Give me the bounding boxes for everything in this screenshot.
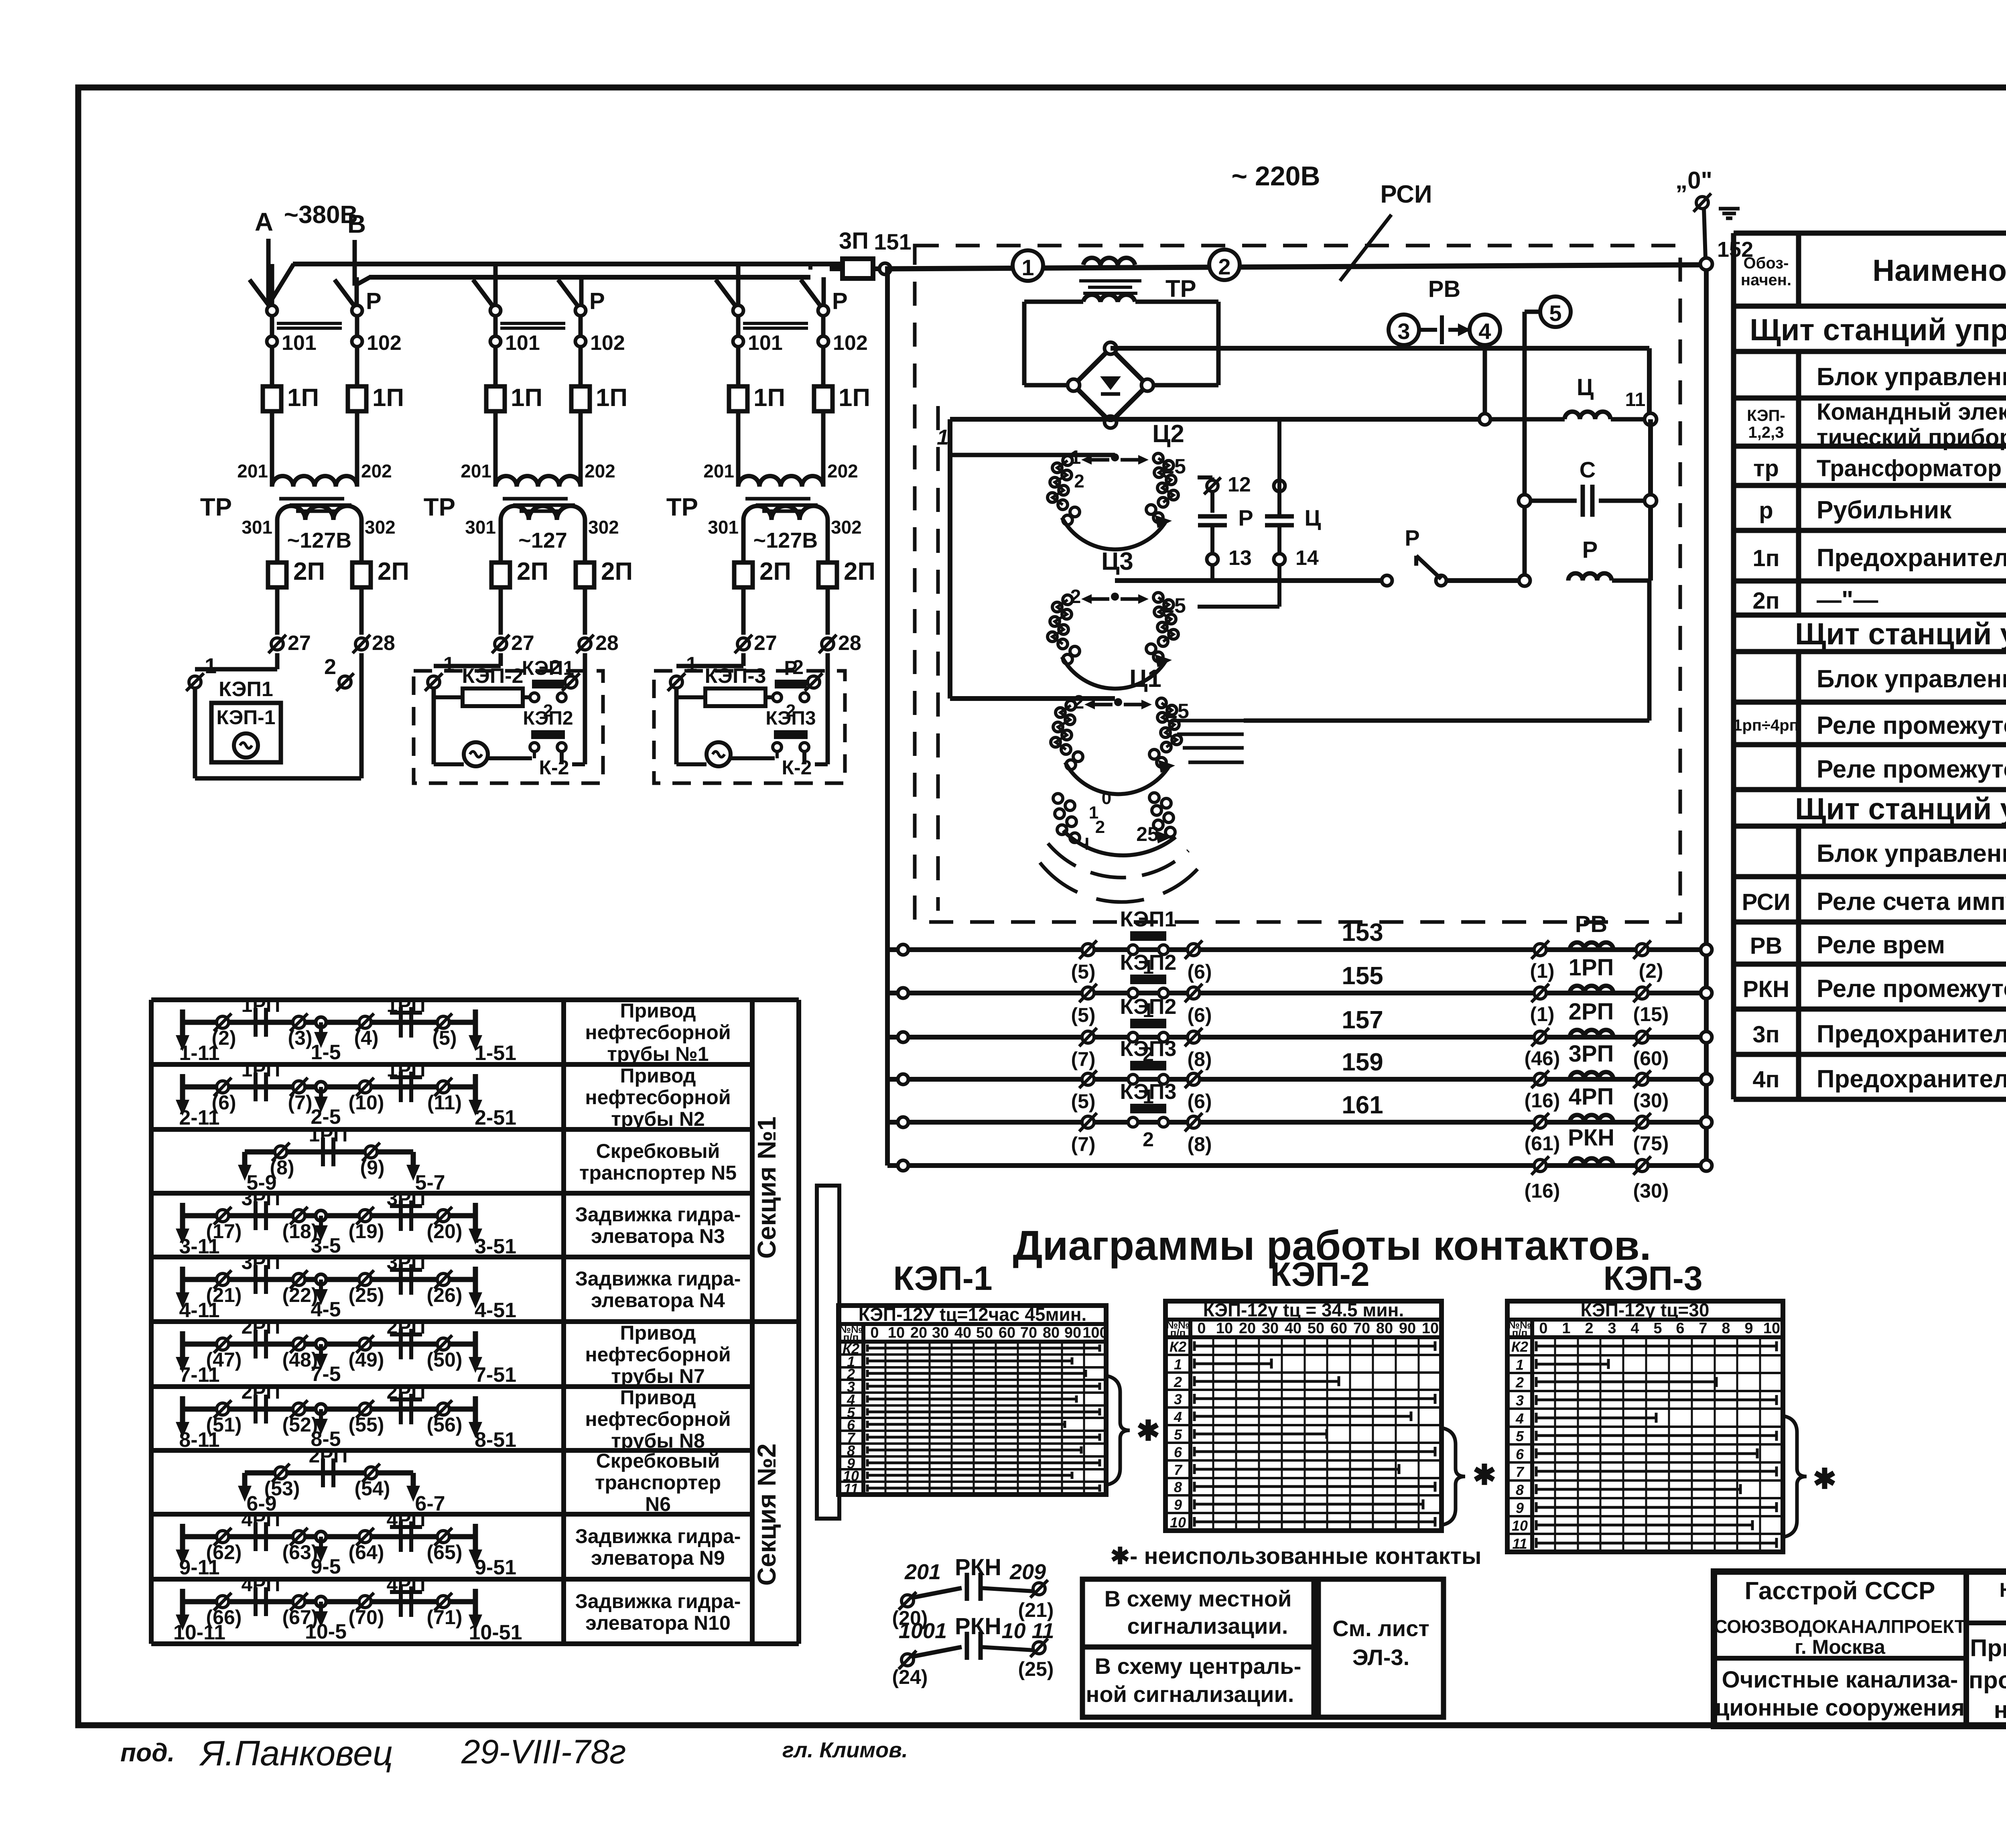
svg-text:80: 80 [1043,1324,1060,1341]
svg-text:РСИ: РСИ [1380,181,1432,208]
svg-text:элеватора N3: элеватора N3 [591,1225,725,1247]
svg-text:ния механизмами.: ния механизмами. [1994,1696,2006,1723]
svg-text:70: 70 [1020,1324,1037,1341]
svg-text:г. Москва: г. Москва [1795,1636,1886,1658]
svg-text:Реле промежуточное: Реле промежуточное [1817,755,2006,783]
svg-text:КЭП-12у tц=30: КЭП-12у tц=30 [1581,1300,1710,1320]
svg-text:152: 152 [1717,238,1753,262]
svg-text:301: 301 [708,517,739,538]
svg-text:(8): (8) [1187,1133,1212,1156]
svg-text:~127В: ~127В [753,528,818,552]
svg-text:30: 30 [1262,1320,1279,1337]
svg-text:201: 201 [461,461,491,481]
svg-text:(2): (2) [211,1027,236,1049]
svg-text:(7): (7) [288,1091,312,1114]
svg-text:(5): (5) [1071,1004,1095,1026]
svg-text:1РП: 1РП [386,994,425,1016]
svg-text:6: 6 [1174,1444,1182,1460]
svg-text:9: 9 [1744,1320,1753,1337]
svg-text:Р: Р [784,657,797,679]
svg-text:7: 7 [1516,1464,1525,1480]
svg-text:3п: 3п [1752,1021,1779,1048]
svg-text:ЭЛ-3.: ЭЛ-3. [1352,1645,1409,1670]
svg-text:нефтесборной: нефтесборной [585,1021,731,1044]
svg-text:5: 5 [1516,1428,1524,1444]
svg-text:Щит станций управления 1ЩСУ шк: Щит станций управления 1ЩСУ шкафы NN 4,5… [1750,313,2006,347]
svg-text:3П: 3П [839,228,869,254]
svg-text:2П: 2П [293,558,325,585]
svg-text:КЭП1: КЭП1 [522,657,574,679]
svg-text:К-2: К-2 [782,756,812,779]
svg-text:8: 8 [1722,1320,1730,1337]
svg-text:100: 100 [1082,1324,1108,1341]
svg-text:2П: 2П [601,558,633,585]
svg-text:КЭП2: КЭП2 [1120,995,1177,1019]
svg-text:2РП: 2РП [309,1444,347,1467]
svg-text:✱: ✱ [1137,1415,1160,1446]
svg-text:3: 3 [1174,1391,1182,1407]
svg-text:(71): (71) [427,1606,463,1629]
svg-text:3РП: 3РП [241,1251,280,1273]
svg-text:6: 6 [1516,1446,1524,1462]
svg-text:153: 153 [1342,919,1383,946]
svg-text:Рубильник: Рубильник [1817,496,1952,524]
svg-text:Блок управления: Блок управления [1817,363,2006,391]
svg-text:п/п: п/п [1170,1327,1186,1339]
svg-text:К2: К2 [1169,1338,1186,1355]
svg-text:28: 28 [372,632,395,655]
svg-text:40: 40 [1285,1320,1301,1337]
svg-text:80: 80 [1376,1320,1393,1337]
svg-text:Ц3: Ц3 [1101,548,1133,575]
svg-text:(8): (8) [1187,1048,1212,1070]
svg-text:В схему местной: В схему местной [1105,1586,1292,1611]
svg-text:КЭП2: КЭП2 [1120,950,1177,975]
svg-text:3-5: 3-5 [311,1234,341,1257]
svg-text:Принципиальная схема: Принципиальная схема [1970,1635,2006,1661]
svg-text:КЭП-1: КЭП-1 [893,1259,992,1297]
svg-text:ной сигнализации.: ной сигнализации. [1086,1681,1294,1707]
svg-text:2П: 2П [844,558,875,585]
svg-text:РКН: РКН [1743,976,1789,1002]
svg-text:(24): (24) [892,1666,928,1688]
svg-text:4: 4 [1630,1320,1639,1337]
svg-text:Блок управления: Блок управления [1817,665,2006,693]
svg-text:20: 20 [1239,1320,1256,1337]
svg-text:9: 9 [1516,1500,1524,1516]
svg-text:К2: К2 [1511,1338,1528,1355]
svg-text:202: 202 [827,461,858,481]
svg-text:90: 90 [1064,1324,1081,1341]
svg-text:7-5: 7-5 [311,1363,341,1386]
svg-text:50: 50 [1308,1320,1324,1337]
svg-text:(11): (11) [427,1091,462,1114]
svg-text:Задвижка гидра-: Задвижка гидра- [575,1267,741,1290]
svg-text:2РП: 2РП [386,1381,425,1403]
svg-text:161: 161 [1342,1091,1383,1119]
svg-text:155: 155 [1342,962,1383,990]
svg-text:(25): (25) [1018,1658,1054,1680]
svg-text:Наименование: Наименование [1872,254,2006,288]
svg-text:102: 102 [590,331,625,355]
svg-text:2: 2 [1095,817,1105,837]
svg-text:(51): (51) [206,1413,242,1436]
svg-text:(30): (30) [1633,1180,1669,1202]
svg-text:3РП: 3РП [386,1251,425,1273]
svg-text:К-2: К-2 [539,756,569,779]
svg-text:ТР: ТР [666,493,698,521]
svg-text:КЭП-3: КЭП-3 [705,664,766,688]
svg-text:40: 40 [954,1324,971,1341]
svg-text:транспортер: транспортер [595,1471,721,1494]
svg-text:(60): (60) [1633,1047,1669,1070]
svg-text:КЭП-12У tц=12час 45мин.: КЭП-12У tц=12час 45мин. [859,1304,1087,1325]
svg-text:27: 27 [754,632,777,655]
svg-text:2: 2 [1143,1128,1154,1151]
svg-text:(9): (9) [360,1156,384,1179]
svg-text:7: 7 [1699,1320,1707,1337]
svg-text:11: 11 [1625,389,1646,410]
svg-text:0: 0 [1539,1320,1547,1337]
svg-text:Трансформатор понижающий: Трансформатор понижающий [1817,455,2006,481]
svg-text:(5): (5) [1071,961,1095,983]
svg-text:трубы N2: трубы N2 [611,1108,705,1130]
svg-text:9: 9 [1174,1497,1182,1513]
svg-text:1: 1 [1516,1357,1524,1373]
svg-text:(16): (16) [1525,1180,1560,1202]
svg-text:нефтесборной: нефтесборной [585,1408,731,1430]
svg-text:202: 202 [585,461,615,481]
svg-text:~ 220В: ~ 220В [1231,161,1320,191]
svg-text:КЭП-12у tц = 34.5 мин.: КЭП-12у tц = 34.5 мин. [1203,1300,1404,1320]
svg-text:транспортер N5: транспортер N5 [579,1162,737,1184]
svg-text:301: 301 [242,517,272,538]
svg-text:(26): (26) [427,1284,463,1306]
svg-text:4: 4 [1174,1409,1182,1425]
svg-text:трубы N7: трубы N7 [611,1365,705,1387]
svg-text:10: 10 [1422,1320,1439,1337]
svg-text:1РП: 1РП [309,1123,347,1146]
svg-text:ТР: ТР [1165,275,1196,302]
svg-text:под.: под. [120,1738,175,1767]
svg-text:11: 11 [1512,1535,1527,1552]
svg-text:(20): (20) [427,1220,463,1243]
svg-text:Привод: Привод [620,1386,696,1409]
svg-text:28: 28 [838,632,861,655]
svg-text:(66): (66) [206,1606,242,1629]
svg-text:Привод: Привод [620,1064,696,1087]
svg-text:301: 301 [465,517,496,538]
svg-text:Предохранитель.: Предохранитель. [1817,1065,2006,1093]
svg-text:1: 1 [1021,255,1034,280]
svg-text:1001: 1001 [899,1619,947,1643]
svg-text:(5): (5) [1071,1090,1095,1113]
svg-text:1п: 1п [1752,545,1779,571]
svg-text:4: 4 [1478,319,1491,344]
svg-text:КЭП-1: КЭП-1 [216,706,275,729]
svg-text:2П: 2П [378,558,409,585]
svg-text:6: 6 [1676,1320,1684,1337]
svg-text:РКН: РКН [955,1613,1001,1639]
svg-text:(21): (21) [1018,1599,1054,1621]
svg-text:Р: Р [1238,505,1253,530]
svg-text:1: 1 [1562,1320,1570,1337]
svg-text:302: 302 [588,517,619,538]
svg-text:14: 14 [1295,546,1319,570]
svg-text:РКН: РКН [955,1554,1001,1580]
svg-text:нефтесборной: нефтесборной [585,1343,731,1366]
svg-text:Р: Р [832,288,848,314]
svg-text:201: 201 [703,461,734,481]
svg-text:Реле врем: Реле врем [1817,931,1945,959]
svg-text:Нефтеловушка из сборных железо: Нефтеловушка из сборных железобетонных [2000,1579,2006,1601]
svg-text:1П: 1П [596,384,627,412]
svg-text:60: 60 [999,1324,1015,1341]
svg-text:(6): (6) [1187,961,1212,983]
svg-text:(53): (53) [264,1477,300,1500]
svg-text:2РП: 2РП [241,1316,280,1338]
svg-text:1-5: 1-5 [311,1041,341,1064]
svg-text:8: 8 [1174,1479,1182,1495]
svg-text:(21): (21) [206,1284,242,1306]
svg-text:ционные сооружения: ционные сооружения [1715,1695,1965,1721]
svg-text:КЭП2: КЭП2 [523,708,573,729]
svg-text:13: 13 [1228,546,1252,570]
svg-text:Задвижка гидра-: Задвижка гидра- [575,1590,741,1612]
svg-text:сигнализации.: сигнализации. [1127,1613,1288,1639]
svg-text:✱- неиспользованные контакты: ✱- неиспользованные контакты [1110,1543,1481,1569]
svg-text:2: 2 [1174,1374,1182,1390]
svg-text:Гасстрой СССР: Гасстрой СССР [1745,1577,1935,1605]
svg-text:30: 30 [932,1324,949,1341]
svg-text:12: 12 [1228,473,1251,496]
svg-text:трубы №1: трубы №1 [607,1043,709,1065]
svg-text:КЭП3: КЭП3 [1120,1080,1177,1104]
svg-text:1рп÷4рп: 1рп÷4рп [1733,717,1799,734]
svg-text:102: 102 [367,331,402,355]
svg-text:ТР: ТР [200,493,232,521]
svg-text:(61): (61) [1525,1132,1560,1155]
svg-text:(6): (6) [1187,1004,1212,1026]
svg-text:(5): (5) [432,1027,457,1049]
svg-text:ТР: ТР [424,493,455,521]
svg-text:28: 28 [595,632,619,655]
svg-text:гл. Климов.: гл. Климов. [782,1738,908,1762]
svg-text:р: р [1759,498,1773,524]
svg-text:3: 3 [1516,1392,1524,1409]
svg-text:КЭП-3: КЭП-3 [1603,1259,1702,1297]
svg-text:9-5: 9-5 [311,1555,341,1578]
svg-text:10-5: 10-5 [305,1620,347,1643]
svg-text:трубы N8: трубы N8 [611,1430,705,1452]
svg-text:2п: 2п [1752,588,1779,614]
svg-text:1: 1 [205,654,217,678]
svg-text:(25): (25) [349,1284,384,1306]
svg-text:9-51: 9-51 [475,1556,516,1579]
svg-text:11: 11 [843,1480,858,1497]
svg-text:Предохранитель: Предохранитель [1817,1020,2006,1048]
svg-text:Р: Р [1405,525,1419,550]
svg-text:(7): (7) [1071,1133,1095,1156]
svg-text:Предохранитель.: Предохранитель. [1817,544,2006,572]
svg-text:2: 2 [1218,254,1230,279]
svg-text:201: 201 [237,461,268,481]
svg-text:0: 0 [1102,788,1111,808]
svg-text:Задвижка гидра-: Задвижка гидра- [575,1203,741,1226]
svg-text:~380В: ~380В [284,201,358,229]
svg-text:29-VIII-78г: 29-VIII-78г [461,1733,626,1771]
svg-text:КЭП-2: КЭП-2 [462,664,524,688]
svg-text:90: 90 [1399,1320,1416,1337]
svg-text:4РП: 4РП [1569,1084,1614,1110]
svg-text:1: 1 [1174,1356,1182,1373]
svg-text:тический прибор.: тический прибор. [1817,424,2006,451]
svg-text:4РП: 4РП [241,1573,280,1596]
svg-text:(47): (47) [206,1348,242,1371]
svg-text:302: 302 [831,517,862,538]
svg-text:2П: 2П [759,558,791,585]
svg-text:2РП: 2РП [1569,999,1614,1025]
svg-text:1РП: 1РП [1569,954,1614,981]
svg-text:РСИ: РСИ [1742,889,1791,915]
svg-text:Ц1: Ц1 [1129,665,1161,692]
svg-text:РВ: РВ [1750,933,1783,959]
svg-text:101: 101 [748,331,783,355]
svg-text:70: 70 [1353,1320,1370,1337]
svg-text:См. лист: См. лист [1332,1616,1429,1641]
svg-text:(17): (17) [206,1220,242,1243]
svg-text:101: 101 [505,331,540,355]
svg-text:Ц: Ц [1577,374,1594,400]
svg-text:(49): (49) [349,1348,384,1371]
svg-text:1РП: 1РП [386,1058,425,1081]
svg-text:КЭП1: КЭП1 [1120,907,1177,931]
svg-text:1П: 1П [511,384,542,412]
svg-text:(50): (50) [427,1348,463,1371]
svg-text:8-51: 8-51 [475,1428,516,1452]
svg-text:В: В [347,209,366,238]
svg-text:4п: 4п [1752,1066,1779,1093]
svg-text:2РП: 2РП [386,1316,425,1338]
svg-text:~127В: ~127В [287,528,352,552]
svg-text:(62): (62) [206,1541,242,1564]
svg-text:10: 10 [1216,1320,1233,1337]
svg-text:(65): (65) [427,1541,463,1564]
svg-text:10: 10 [1170,1514,1186,1531]
svg-text:Командный электропневма-: Командный электропневма- [1817,399,2006,425]
svg-text:✱: ✱ [1473,1459,1496,1491]
svg-text:1П: 1П [839,384,870,412]
svg-text:7: 7 [1174,1462,1183,1478]
svg-text:РКН: РКН [1568,1125,1614,1151]
svg-text:2: 2 [1074,471,1084,491]
svg-text:Секция №1: Секция №1 [752,1117,781,1259]
svg-text:(7): (7) [1071,1048,1095,1070]
svg-text:Р: Р [1582,537,1598,563]
svg-text:Р: Р [366,288,382,314]
svg-text:60: 60 [1330,1320,1347,1337]
svg-text:Р: Р [589,288,605,314]
svg-text:2: 2 [1585,1320,1593,1337]
svg-text:151: 151 [874,229,911,254]
svg-text:10: 10 [1512,1517,1528,1534]
svg-text:(1): (1) [1530,1003,1554,1026]
svg-text:159: 159 [1342,1048,1383,1076]
svg-text:3РП: 3РП [1569,1041,1614,1067]
svg-text:Блок управления: Блок управления [1817,840,2006,867]
svg-text:(16): (16) [1525,1089,1560,1112]
svg-text:4-5: 4-5 [311,1298,341,1321]
svg-text:1-51: 1-51 [475,1042,516,1065]
svg-text:КЭП3: КЭП3 [1120,1037,1177,1061]
svg-text:0: 0 [870,1324,879,1341]
svg-text:3РП: 3РП [386,1187,425,1210]
svg-text:5: 5 [1549,301,1561,326]
svg-text:N6: N6 [645,1493,671,1515]
svg-text:Реле промежуточное: Реле промежуточное [1817,975,2006,1003]
svg-text:А: А [255,207,273,236]
svg-text:СОЮЗВОДОКАНАЛПРОЕКТ: СОЮЗВОДОКАНАЛПРОЕКТ [1714,1616,1965,1637]
svg-text:101: 101 [282,331,317,355]
svg-text:1: 1 [937,425,949,449]
svg-text:В схему централь-: В схему централь- [1095,1653,1301,1679]
svg-text:Секция №2: Секция №2 [752,1444,781,1586]
svg-text:4РП: 4РП [241,1508,280,1531]
svg-text:(19): (19) [349,1220,384,1243]
svg-text:27: 27 [288,632,311,655]
svg-text:(6): (6) [1187,1090,1212,1113]
svg-text:Реле счета импульсов.: Реле счета импульсов. [1817,888,2006,916]
svg-text:4РП: 4РП [386,1573,425,1596]
svg-text:РВ: РВ [1428,276,1461,302]
svg-text:0: 0 [1197,1320,1206,1337]
svg-text:209: 209 [1009,1560,1046,1584]
svg-text:программного управле-: программного управле- [1969,1667,2006,1694]
svg-text:102: 102 [833,331,868,355]
svg-text:1П: 1П [372,384,404,412]
svg-text:КЭП1: КЭП1 [219,678,273,701]
svg-text:(70): (70) [349,1606,384,1629]
svg-text:1П: 1П [287,384,319,412]
svg-text:—"—: —"— [1817,586,1878,614]
svg-text:Щит станций управления 1ЩСУ: Щит станций управления 1ЩСУ шкаф N4 [1795,617,2006,651]
svg-text:25: 25 [1136,823,1159,845]
svg-text:п/п: п/п [1512,1327,1528,1339]
svg-text:Щит станций управления 1ЩСУ шк: Щит станций управления 1ЩСУ шкаф N5 [1795,792,2006,826]
svg-text:элеватора N9: элеватора N9 [591,1547,725,1569]
svg-text:(10): (10) [349,1091,384,1114]
svg-text:Реле промежуточное: Реле промежуточное [1817,712,2006,739]
svg-text:начен.: начен. [1741,271,1791,289]
svg-text:(54): (54) [355,1477,390,1500]
svg-text:2: 2 [324,655,336,679]
svg-text:10: 10 [1763,1320,1780,1337]
svg-text:(64): (64) [349,1541,384,1564]
svg-text:2П: 2П [517,558,548,585]
svg-text:1П: 1П [753,384,785,412]
svg-text:(46): (46) [1525,1047,1560,1070]
svg-text:201: 201 [904,1560,941,1584]
svg-text:(3): (3) [288,1027,312,1049]
svg-text:✱: ✱ [1813,1463,1837,1495]
svg-text:КЭП-2: КЭП-2 [1270,1255,1369,1293]
svg-text:Очистные канализа-: Очистные канализа- [1722,1667,1958,1693]
svg-text:~127: ~127 [518,528,567,552]
svg-text:КЭП-: КЭП- [1747,407,1785,424]
svg-text:20: 20 [910,1324,927,1341]
svg-text:2-51: 2-51 [475,1106,516,1129]
svg-text:КЭП3: КЭП3 [765,708,816,729]
